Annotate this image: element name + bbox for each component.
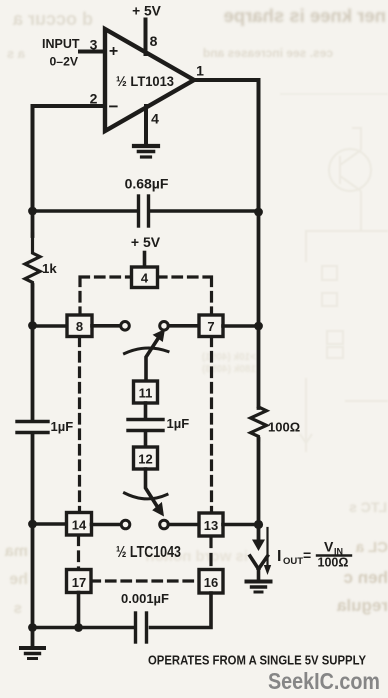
pin box 17 [67, 570, 92, 593]
LTC1043 dashed boundary top right [158, 277, 212, 315]
svg-text:0–2V: 0–2V [50, 55, 79, 69]
wire contact to box13 [169, 523, 200, 527]
wire pin8 supply [144, 20, 148, 55]
arrow Iout direction [264, 528, 271, 575]
label INPUT 0-2V [42, 37, 80, 69]
svg-text:+: + [109, 43, 118, 60]
capacitor 0.68uF [125, 176, 169, 227]
svg-text:1: 1 [196, 63, 204, 79]
wire pin2 feedback [33, 106, 106, 211]
svg-text:regula: regula [336, 596, 388, 615]
LTC1043 dashed right side 7 to 13 [210, 337, 213, 513]
svg-text:0.001µF: 0.001µF [121, 591, 169, 606]
node left rail / box14 [28, 520, 37, 529]
wire left rail mid [31, 285, 35, 421]
svg-text:ces. see increases and: ces. see increases and [203, 46, 333, 60]
wire right rail upper mid [257, 209, 261, 408]
op-amp U1 1/2 LT1013 [105, 29, 194, 131]
ground (output) [247, 582, 271, 593]
wire +5V stub [143, 253, 147, 269]
wire box17 down [77, 593, 81, 628]
ground (left rail) [21, 648, 44, 659]
svg-text:−: − [109, 97, 119, 116]
node right rail / box13 [254, 520, 263, 529]
wire box13 to right rail [223, 523, 259, 527]
wire box14 to contact [92, 523, 121, 527]
pin box 16 [199, 570, 223, 594]
switch wiper S1 bottom [125, 469, 168, 517]
wire box16 down to bottom row [151, 593, 212, 628]
svg-text:0.68µF: 0.68µF [125, 176, 169, 192]
svg-text:½ LTC1043: ½ LTC1043 [116, 544, 181, 561]
LTC1043 dashed bottom 17 to 16 [91, 579, 200, 582]
wire left rail lower [31, 434, 35, 646]
svg-text:16: 16 [204, 575, 218, 590]
svg-text:I: I [277, 548, 281, 565]
svg-text:s: s [14, 600, 22, 617]
svg-text:8: 8 [76, 319, 83, 334]
svg-text:LTC s: LTC s [349, 499, 387, 515]
pin box 12 [134, 447, 158, 469]
svg-text:17: 17 [72, 575, 86, 590]
LTC1043 dashed boundary top left [80, 277, 132, 315]
svg-text:CL a: CL a [355, 539, 388, 556]
svg-text:1µF: 1µF [51, 419, 74, 434]
capacitor 0.001uF [121, 591, 169, 642]
switch contact S1a left [121, 322, 130, 331]
wire left rail upper [31, 209, 35, 236]
node left rail / cap [28, 207, 37, 216]
wire box11 to cap [144, 403, 148, 418]
svg-text:7: 7 [207, 319, 214, 334]
svg-text:11: 11 [139, 386, 153, 401]
switch contact S2a left [121, 520, 130, 529]
wire box8 to contact [92, 324, 120, 328]
LTC1043 dashed left side 8 to 14 [78, 337, 81, 512]
node left rail / box8 [28, 321, 37, 330]
svg-text:he: he [9, 571, 28, 588]
svg-text:d occur a: d occur a [12, 9, 93, 29]
capacitor 1uF (left, on rail) [17, 419, 73, 434]
svg-text:½ LT1013: ½ LT1013 [116, 73, 174, 89]
switch contact S1a right [160, 322, 169, 331]
LTC1043 dashed left side 14 to 17 [77, 536, 80, 569]
node left rail / bottom row [28, 623, 37, 632]
pin box 14 [67, 513, 92, 536]
switch contact S2a right [160, 520, 169, 529]
svg-text:+ 5V: + 5V [131, 234, 161, 250]
wire contact to box7 [169, 324, 200, 328]
svg-text:1µF: 1µF [167, 416, 190, 431]
svg-text:ma: ma [5, 543, 28, 560]
pin box 11 [134, 381, 158, 403]
svg-text:OPERATES FROM A SINGLE 5V SUPP: OPERATES FROM A SINGLE 5V SUPPLY [148, 653, 366, 668]
svg-text:hen c: hen c [344, 568, 388, 587]
LTC1043 dashed right side 13 to 16 [209, 537, 212, 570]
svg-text:ner knee is sharpe: ner knee is sharpe [224, 5, 386, 26]
wire right rail lower [257, 439, 261, 525]
svg-text:INPUT: INPUT [42, 37, 80, 51]
svg-text:a s: a s [7, 46, 25, 61]
svg-text:V: V [324, 539, 334, 555]
svg-text:14: 14 [72, 518, 87, 533]
wire pin4 [144, 106, 148, 145]
resistor 100 ohm [251, 407, 301, 440]
svg-text:12: 12 [138, 452, 152, 467]
svg-text:4: 4 [141, 271, 149, 286]
svg-text:13: 13 [204, 518, 218, 533]
wire cap row left [33, 209, 138, 213]
svg-text:4: 4 [151, 111, 159, 127]
wire cap row right [150, 209, 259, 213]
svg-text:100Ω: 100Ω [268, 420, 300, 435]
wire box8 left [33, 324, 69, 328]
label Iout = Vin/100ohm [277, 539, 351, 570]
resistor 1k [25, 234, 57, 286]
svg-text:OUT: OUT [283, 556, 303, 567]
wire box7 to right rail [223, 324, 259, 328]
node right rail / cap [254, 208, 263, 217]
svg-text:100Ω: 100Ω [318, 556, 349, 570]
current output arrow [250, 525, 268, 579]
svg-text:+ 5V: + 5V [132, 4, 162, 19]
pin box 4 [132, 267, 158, 288]
pin box 13 [199, 513, 223, 536]
wire pin3 input [80, 50, 105, 54]
wire bottom row left [33, 626, 136, 630]
capacitor 1uF (flying) [128, 416, 189, 431]
wire box14 left [33, 522, 68, 526]
pin box 8 [67, 315, 92, 337]
ground (op-amp pin 4) [134, 146, 158, 157]
wire output to right rail [192, 80, 259, 211]
svg-text:1k: 1k [42, 261, 57, 276]
svg-text:8: 8 [150, 33, 158, 49]
wire cap to box12 [144, 432, 148, 447]
svg-text:=: = [303, 547, 311, 563]
svg-text:SeekIC.com: SeekIC.com [268, 668, 380, 694]
node bottom wire / box17 [74, 623, 83, 632]
node right rail / box7 [254, 322, 263, 331]
switch wiper S1 top [125, 329, 169, 381]
pin box 7 [199, 315, 223, 337]
